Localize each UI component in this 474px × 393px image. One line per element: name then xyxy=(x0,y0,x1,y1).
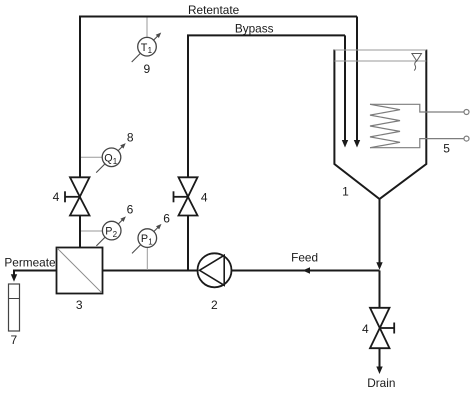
svg-text:Retentate: Retentate xyxy=(188,3,240,17)
svg-text:1: 1 xyxy=(113,157,118,166)
svg-text:1: 1 xyxy=(148,46,153,55)
instrument P2 xyxy=(96,216,126,246)
membrane module 3 xyxy=(57,248,103,294)
svg-text:6: 6 xyxy=(127,203,134,217)
svg-text:Q: Q xyxy=(104,153,112,165)
svg-text:5: 5 xyxy=(443,141,450,155)
svg-text:4: 4 xyxy=(362,322,369,336)
instrument T1 connector xyxy=(146,18,148,39)
measuring cylinder 7 xyxy=(9,284,20,331)
wire: bypass drop into tank xyxy=(344,35,346,141)
wire: bypass run xyxy=(188,35,345,177)
valve 4 (bypass, middle) xyxy=(174,177,198,215)
pump 2 xyxy=(198,253,232,287)
instrument Q1 xyxy=(96,143,126,173)
svg-text:1: 1 xyxy=(148,238,153,247)
svg-text:Feed: Feed xyxy=(291,251,318,265)
svg-text:9: 9 xyxy=(143,62,150,76)
svg-text:4: 4 xyxy=(201,190,208,204)
instrument P1 xyxy=(132,224,162,254)
instrument P2 connector xyxy=(81,230,103,232)
tank top line xyxy=(334,49,426,51)
svg-text:8: 8 xyxy=(127,131,134,145)
wire: permeate line xyxy=(14,271,57,276)
wire: left valve to membrane xyxy=(79,216,81,248)
svg-text:3: 3 xyxy=(76,298,83,312)
svg-text:4: 4 xyxy=(53,190,60,204)
tank liquid level line xyxy=(334,60,426,62)
svg-text:P: P xyxy=(105,226,112,238)
instrument Q1 connector xyxy=(81,156,102,158)
heater coil 5 xyxy=(370,104,469,147)
wire: tank outlet to feed junction xyxy=(379,199,381,263)
instrument T1 xyxy=(132,33,162,63)
wire: pump to membrane xyxy=(103,270,198,272)
node: feed junction xyxy=(379,271,381,308)
svg-text:1: 1 xyxy=(342,184,349,198)
svg-text:6: 6 xyxy=(163,212,170,226)
instrument P1 connector xyxy=(146,248,148,270)
svg-text:Drain: Drain xyxy=(367,376,395,390)
svg-text:2: 2 xyxy=(113,230,118,239)
svg-text:7: 7 xyxy=(11,333,18,347)
svg-text:Permeate: Permeate xyxy=(4,256,56,270)
valve 4 (left) xyxy=(65,177,90,215)
level indicator symbol xyxy=(412,54,422,71)
svg-text:P: P xyxy=(141,233,148,245)
wire: bypass valve to feed line xyxy=(187,216,189,271)
valve 4 (drain) xyxy=(370,308,394,348)
wire: retentate drop into tank xyxy=(356,17,358,142)
svg-text:2: 2 xyxy=(211,298,218,312)
tank T1 walls xyxy=(334,50,426,200)
wire: drain xyxy=(379,348,381,367)
svg-text:Bypass: Bypass xyxy=(235,22,274,36)
wire: retentate top run xyxy=(80,17,357,178)
wire: feed line xyxy=(232,270,380,272)
